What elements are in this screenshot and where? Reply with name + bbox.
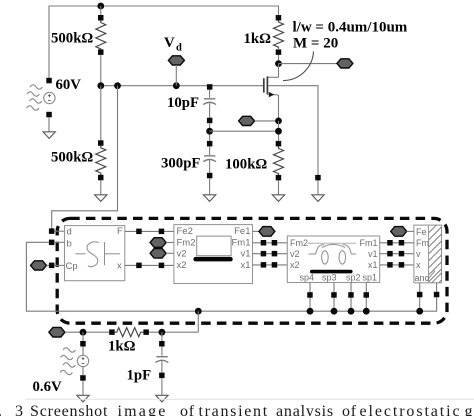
pin d terminal xyxy=(49,228,55,234)
wire Fm1 to Fm xyxy=(380,242,414,244)
wire source down xyxy=(278,121,280,144)
annotation arc xyxy=(283,52,314,81)
block U1 transducer xyxy=(65,226,125,281)
node source xyxy=(275,118,282,125)
wire bulk xyxy=(268,86,318,178)
port hexagon bottom xyxy=(49,327,65,337)
wire Fe1 to hexagon xyxy=(253,230,260,232)
node 1pF branch xyxy=(159,329,166,336)
wire bottom rail xyxy=(65,331,112,333)
port hexagon Fe anchor xyxy=(391,227,407,237)
icon spring inside U3 xyxy=(308,243,357,264)
wire x1 to x xyxy=(380,264,414,266)
port hexagon Fe1 xyxy=(259,227,275,237)
bulk terminal square xyxy=(315,175,321,181)
resistor R2 500k bottom xyxy=(96,86,106,195)
wire x1-x2 xyxy=(253,264,288,266)
ground below R2 xyxy=(95,195,107,202)
resistor R1 500k top xyxy=(96,3,106,86)
wire drain to output port xyxy=(279,63,338,65)
wire Fm1-Fm2 xyxy=(253,242,288,244)
faint rule above caption xyxy=(25,398,474,400)
resistor R5 1k bottom xyxy=(109,311,198,337)
icon spring bar U3 xyxy=(310,270,353,274)
wire pin b to bottom bus xyxy=(26,242,436,311)
wire sp1 stub xyxy=(365,283,367,312)
port hexagon Cp xyxy=(31,261,47,270)
block U2 gap plate xyxy=(174,225,253,284)
port hexagon v2 xyxy=(150,249,166,259)
resistor R3 1k top xyxy=(274,15,284,64)
transistor M1 xyxy=(264,64,279,121)
wire anchor stub right xyxy=(434,292,440,298)
capacitor C1 10pF xyxy=(203,84,216,123)
port hexagon Fm2 xyxy=(150,238,166,248)
node 100k top xyxy=(275,128,282,135)
ground below 1pF xyxy=(156,395,168,402)
node 0.6V branch xyxy=(80,329,87,336)
voltage source V2 0.6V xyxy=(77,332,88,395)
AC squiggles 60V xyxy=(27,85,43,110)
capacitor C3 1pF xyxy=(156,332,169,395)
wire v1 to v xyxy=(380,253,414,255)
voltage source V1 60V xyxy=(44,78,55,132)
port output hexagon xyxy=(337,59,353,68)
wire F to Fe2 xyxy=(125,230,174,232)
wire pin d riser xyxy=(52,86,118,229)
icon S-H inside U1 xyxy=(75,242,120,267)
port hexagon mid xyxy=(239,116,255,125)
ground below 60V source xyxy=(43,132,55,139)
AC squiggles 0.6V xyxy=(60,348,75,375)
block U3 spring xyxy=(287,236,379,283)
node bus tap xyxy=(195,308,202,315)
ground below 100k xyxy=(272,195,284,202)
wire hexagon to source node xyxy=(255,120,279,122)
ground below 0.6V xyxy=(77,395,89,402)
resistor R4 100k xyxy=(274,141,284,195)
wire sp3 stub xyxy=(333,283,335,312)
pin b terminal xyxy=(49,240,55,246)
wire to 100k node xyxy=(210,130,279,132)
port Vd xyxy=(164,35,184,86)
wire anchor stub left xyxy=(419,283,421,311)
node cap junction xyxy=(206,128,213,135)
dashed macro-model box xyxy=(57,218,447,323)
ground below 300pF xyxy=(203,195,215,202)
node mid-rail junctions xyxy=(97,82,104,89)
wire mid rail xyxy=(101,85,264,87)
wire x to x2 xyxy=(125,264,174,266)
wire top rail xyxy=(49,6,279,81)
icon plate bar U2 xyxy=(193,257,232,262)
wire v1-v2 xyxy=(253,253,288,255)
node drain xyxy=(275,60,282,67)
icon plate inside U2 xyxy=(197,236,231,256)
wire sp2 stub xyxy=(350,283,352,312)
block U4 anchor xyxy=(414,225,442,283)
pin Cp terminal xyxy=(49,263,55,269)
capacitor C2 300pF xyxy=(203,141,216,195)
wire cap node xyxy=(209,123,211,143)
ground bulk xyxy=(312,195,324,202)
wire sp4 stub xyxy=(309,283,311,312)
